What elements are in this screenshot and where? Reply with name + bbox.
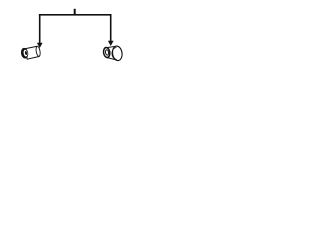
left cylinder left end cap (dark ring) — [20, 47, 29, 59]
right cylinder left end ring — [103, 47, 111, 58]
right cylinder left end inner arc — [105, 50, 109, 56]
wire: top horizontal bus — [39, 14, 112, 16]
right cylinder big front ellipse — [112, 45, 123, 61]
left cylinder right rim — [35, 46, 41, 57]
node I: tick at center of bus — [74, 9, 76, 15]
left cylinder (roller) — [20, 46, 41, 59]
arrowhead onto left cylinder — [37, 43, 43, 48]
left cylinder hub dot — [25, 51, 28, 55]
right cylinder inner rim arc — [112, 48, 117, 60]
arrowhead onto right cylinder — [108, 41, 114, 46]
left cylinder body — [26, 46, 40, 59]
wire: left vertical drop — [39, 14, 41, 44]
right cylinder body — [106, 46, 116, 59]
right cylinder (roller) — [103, 45, 123, 61]
left cylinder end cap inner white ring — [23, 49, 28, 56]
wire: right vertical drop — [110, 14, 112, 42]
